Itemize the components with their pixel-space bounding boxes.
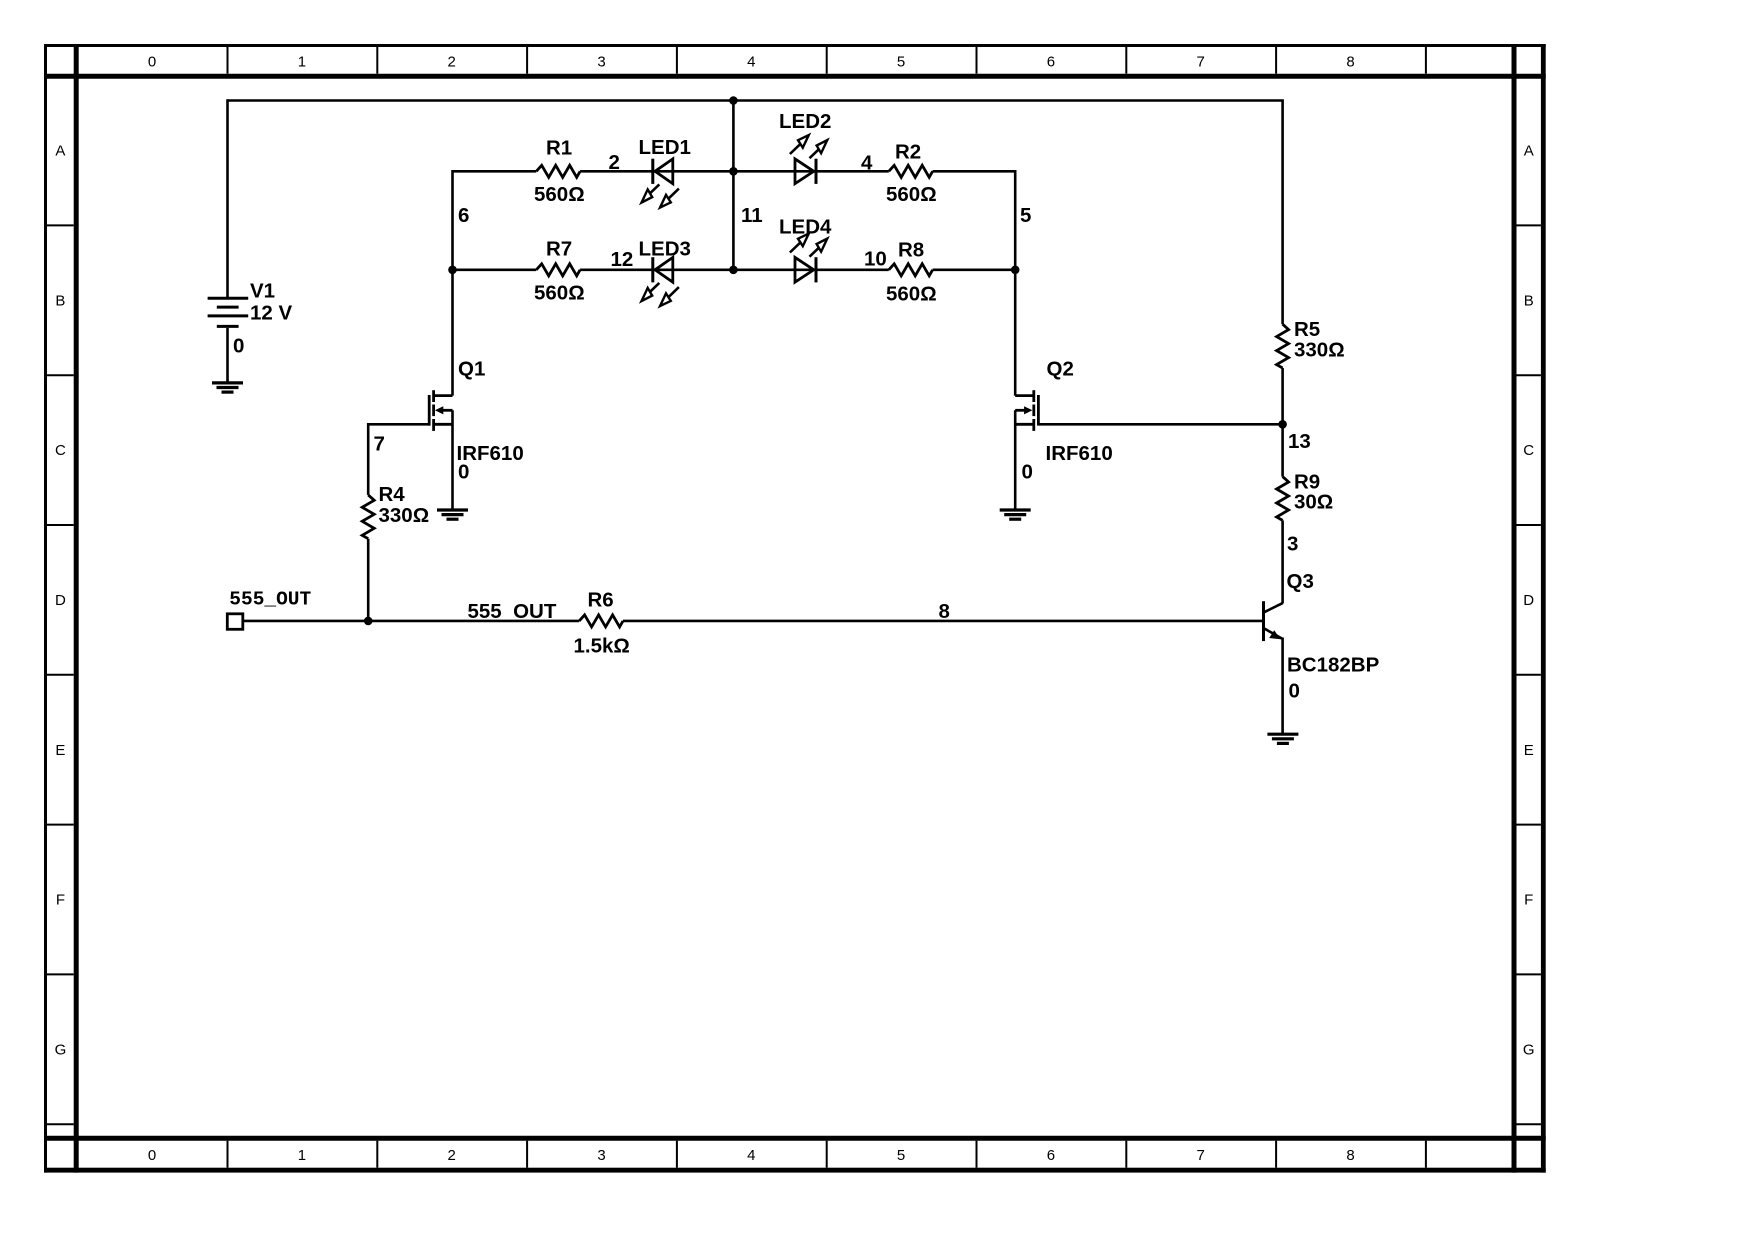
svg-text:3: 3 <box>1287 533 1298 556</box>
svg-text:2: 2 <box>448 1147 456 1164</box>
svg-text:0: 0 <box>1022 461 1033 484</box>
MOSFET Q2 <box>1015 390 1038 508</box>
wire row2 R8 to node5 vertical <box>933 268 1016 271</box>
frame row labels <box>55 143 1535 1059</box>
wire Q2 gate lead to node 13 <box>1038 423 1282 426</box>
resistor R8 <box>889 264 933 276</box>
wire row1 R1 to R2 <box>580 170 889 173</box>
svg-text:E: E <box>1524 742 1534 759</box>
svg-text:3: 3 <box>597 53 605 70</box>
wire node 6 vertical with row1 left segment <box>453 171 537 395</box>
junction node 7 / R4 on 555 rail <box>364 617 373 626</box>
resistor R4 <box>362 495 374 539</box>
svg-text:LED3: LED3 <box>639 238 691 261</box>
svg-text:V1: V1 <box>250 280 275 303</box>
svg-text:E: E <box>55 742 65 759</box>
svg-text:12: 12 <box>611 248 634 271</box>
LED4 <box>790 233 827 282</box>
ground at Q3 <box>1267 734 1298 743</box>
svg-text:Q1: Q1 <box>458 358 485 381</box>
svg-text:10: 10 <box>864 248 887 271</box>
svg-text:LED1: LED1 <box>639 136 691 159</box>
junction node 5 on row 2 <box>1011 266 1020 275</box>
junction node 11 on top rail <box>729 96 738 105</box>
svg-text:0: 0 <box>1289 680 1300 703</box>
svg-text:13: 13 <box>1288 430 1311 453</box>
wire row2 from node6 to R7 <box>453 268 537 271</box>
svg-text:Q3: Q3 <box>1287 570 1314 593</box>
wire node 11 vertical <box>732 101 735 270</box>
sheet inner border <box>44 44 1546 1173</box>
wire V1 negative lead <box>226 328 229 383</box>
svg-text:BC182BP: BC182BP <box>1287 654 1379 677</box>
svg-text:560Ω: 560Ω <box>886 283 937 306</box>
svg-text:G: G <box>55 1041 67 1058</box>
svg-text:C: C <box>1523 442 1534 459</box>
svg-text:4: 4 <box>747 53 755 70</box>
wire R9 to Q3 collector <box>1281 520 1284 603</box>
wire Q1 gate lead to R4 <box>368 424 430 495</box>
junction node 13 <box>1278 420 1287 429</box>
svg-text:0: 0 <box>458 461 469 484</box>
sheet outer border <box>44 44 1546 1173</box>
svg-text:D: D <box>1523 592 1534 609</box>
MOSFET Q1 <box>429 390 452 508</box>
svg-text:R4: R4 <box>379 483 406 506</box>
svg-text:555 OUT: 555 OUT <box>468 600 557 623</box>
resistor R9 <box>1277 477 1289 521</box>
svg-text:5: 5 <box>897 53 905 70</box>
svg-text:6: 6 <box>458 204 469 227</box>
svg-text:R6: R6 <box>588 589 614 612</box>
svg-text:R2: R2 <box>895 141 921 164</box>
svg-text:8: 8 <box>1346 1147 1354 1164</box>
svg-text:LED2: LED2 <box>779 110 831 133</box>
svg-text:12 V: 12 V <box>250 302 292 325</box>
junction node 11 on row 1 <box>729 167 738 176</box>
svg-text:330Ω: 330Ω <box>379 504 430 527</box>
svg-text:7: 7 <box>1197 53 1205 70</box>
resistor R1 <box>536 165 580 177</box>
svg-text:Q2: Q2 <box>1047 358 1074 381</box>
wire row2 R7 to R8 <box>580 268 889 271</box>
wire V1 positive lead <box>226 99 229 297</box>
LED3 <box>642 257 679 306</box>
svg-text:6: 6 <box>1047 53 1055 70</box>
svg-text:1: 1 <box>298 53 306 70</box>
resistor R5 <box>1277 324 1289 368</box>
svg-text:330Ω: 330Ω <box>1294 339 1345 362</box>
junction node 6 on row 2 <box>448 266 457 275</box>
svg-text:G: G <box>1523 1041 1535 1058</box>
frame row separators <box>47 225 1541 1124</box>
svg-text:A: A <box>1524 143 1534 160</box>
svg-text:F: F <box>56 892 65 909</box>
svg-text:B: B <box>1524 292 1534 309</box>
transistor Q3 <box>1264 601 1283 734</box>
wire R4 bottom to 555 rail <box>367 539 370 621</box>
wire row1 right corner down to Q2 drain <box>933 171 1016 395</box>
frame column separators <box>228 47 1426 1168</box>
svg-text:0: 0 <box>148 1147 156 1164</box>
svg-text:11: 11 <box>741 204 763 227</box>
svg-text:D: D <box>55 592 66 609</box>
svg-text:560Ω: 560Ω <box>886 183 937 206</box>
svg-text:6: 6 <box>1047 1147 1055 1164</box>
svg-text:B: B <box>55 292 65 309</box>
port 555_OUT <box>227 614 243 630</box>
svg-text:8: 8 <box>1346 53 1354 70</box>
resistor R6 <box>579 615 623 627</box>
svg-text:3: 3 <box>597 1147 605 1164</box>
svg-text:C: C <box>55 442 66 459</box>
junction node 11 on row 2 <box>729 266 738 275</box>
resistor R7 <box>536 264 580 276</box>
svg-text:555_OUT: 555_OUT <box>229 588 311 610</box>
frame column labels <box>148 53 1355 1164</box>
svg-text:4: 4 <box>747 1147 755 1164</box>
svg-text:30Ω: 30Ω <box>1294 491 1333 514</box>
svg-text:8: 8 <box>939 600 950 623</box>
svg-text:1.5kΩ: 1.5kΩ <box>574 635 630 658</box>
wire 555 rail right to Q3 base <box>623 620 1263 623</box>
svg-text:2: 2 <box>448 53 456 70</box>
svg-text:0: 0 <box>233 335 244 358</box>
svg-text:5: 5 <box>1020 204 1031 227</box>
ground at Q2 <box>1000 510 1031 519</box>
svg-text:F: F <box>1524 892 1533 909</box>
svg-text:1: 1 <box>298 1147 306 1164</box>
svg-text:R8: R8 <box>898 239 924 262</box>
wire top rail from V1 to R5 branch <box>228 101 1283 325</box>
LED1 <box>642 159 679 208</box>
LED2 <box>790 135 827 184</box>
svg-text:560Ω: 560Ω <box>534 183 585 206</box>
ground at Q1 <box>437 510 468 519</box>
svg-text:R1: R1 <box>546 137 572 160</box>
resistor R2 <box>889 165 933 177</box>
wire R5 to R9 through node 13 <box>1281 368 1284 477</box>
svg-text:A: A <box>55 143 65 160</box>
svg-text:7: 7 <box>374 433 385 456</box>
battery V1 <box>208 298 249 326</box>
svg-text:IRF610: IRF610 <box>1046 442 1113 465</box>
svg-text:5: 5 <box>897 1147 905 1164</box>
svg-text:R7: R7 <box>546 238 572 261</box>
svg-text:0: 0 <box>148 53 156 70</box>
svg-text:4: 4 <box>861 152 873 175</box>
wire 555 rail left <box>243 620 579 623</box>
svg-text:7: 7 <box>1197 1147 1205 1164</box>
ground at V1 <box>212 383 243 392</box>
svg-text:560Ω: 560Ω <box>534 282 585 305</box>
